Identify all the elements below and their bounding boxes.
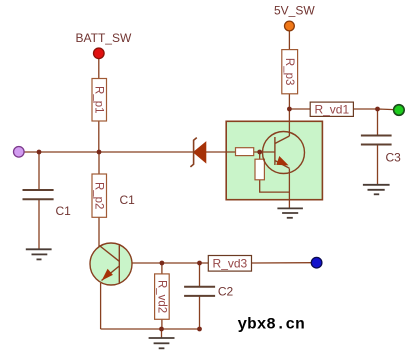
wire 5V_SW terminal to R_p3 — [288, 31, 290, 50]
svg-text:R_vd3: R_vd3 — [213, 257, 248, 271]
wire R_vd1 to C3 node — [353, 108, 377, 110]
wire node to R_p2 — [98, 152, 100, 174]
wire C3 node to output terminal — [378, 108, 395, 111]
wire box resistor to base node — [254, 151, 275, 153]
ground (C3) — [363, 185, 390, 195]
resistor R_vd3 — [208, 256, 251, 272]
Q2 emitter arrow — [102, 269, 113, 281]
junction node (C3 tap) — [375, 107, 380, 112]
Q1 emitter arrow — [276, 156, 288, 165]
wire C3 branch down — [377, 109, 379, 136]
svg-text:C3: C3 — [386, 151, 402, 165]
terminal output R_vd1 (green) — [394, 105, 405, 116]
wire Q2 emitter down — [100, 283, 102, 329]
terminal 5V_SW — [285, 21, 295, 31]
wire C1 to ground — [38, 199, 40, 249]
resistor R_p1 — [92, 79, 107, 122]
svg-text:C1: C1 — [120, 193, 136, 207]
resistor R_p2 — [92, 174, 107, 217]
junction node (5V node) — [287, 107, 292, 112]
ground (bottom rail) — [149, 338, 175, 348]
junction node (C2 tap) — [197, 261, 202, 266]
svg-text:R_p1: R_p1 — [93, 86, 105, 114]
resistor R_vd1 — [310, 102, 353, 116]
svg-text:5V_SW: 5V_SW — [274, 4, 315, 18]
terminal output R_vd3 (blue) — [311, 257, 322, 268]
junction node (Q1 base) — [257, 150, 262, 155]
resistor internal horizontal (base) — [236, 148, 254, 156]
svg-text:R_vd2: R_vd2 — [155, 280, 167, 313]
junction node (left C1 tap) — [37, 150, 42, 155]
wire R_p1 to main node — [98, 121, 100, 152]
svg-text:R_p3: R_p3 — [283, 58, 295, 86]
terminal BATT_SW — [94, 48, 105, 59]
wire R_vd3 to output terminal — [252, 262, 312, 264]
zener diode D1 — [190, 138, 205, 167]
terminal input (violet) — [13, 147, 24, 158]
wire C1 branch down — [38, 152, 40, 190]
junction node (main node) — [97, 150, 102, 155]
wire zener to box resistor — [206, 151, 236, 153]
capacitor C3 — [361, 136, 392, 145]
capacitor C1 — [23, 190, 54, 199]
wire bottom rail — [101, 328, 200, 330]
junction node (rail C2) — [197, 327, 202, 332]
resistor internal vertical (base-emitter) — [255, 159, 264, 180]
wire node to R_vd1 — [289, 108, 310, 110]
wire base node to R internal top — [259, 152, 261, 159]
transistor Q1 (NPN in box) — [263, 132, 305, 174]
wire C2 bottom — [199, 296, 201, 329]
wire rail to ground — [161, 329, 163, 338]
svg-text:C2: C2 — [218, 285, 234, 299]
wire node to Q1 collector — [288, 109, 290, 136]
wire R_p2 to Q2 collector — [98, 217, 100, 246]
wire R_vd2 bottom — [161, 319, 163, 329]
svg-text:BATT_SW: BATT_SW — [76, 31, 132, 45]
wire R_vd2 branch — [161, 263, 163, 274]
junction node (R_vd2 tap) — [160, 261, 165, 266]
wire C3 to ground — [377, 145, 379, 185]
wire BATT_SW terminal to R_p1 — [98, 58, 100, 79]
svg-text:R_vd1: R_vd1 — [314, 102, 349, 116]
resistor R_vd2 — [155, 274, 170, 319]
svg-text:ybx8.cn: ybx8.cn — [238, 316, 305, 334]
resistor R_p3 — [282, 50, 298, 94]
ground (C1) — [26, 249, 52, 259]
wire R_p3 to node — [288, 94, 290, 109]
wire R internal bottom L-bend to emitter — [260, 180, 290, 192]
wire Q1 emitter to ground — [288, 169, 290, 209]
wire main horizontal net (left terminal to zener) — [24, 151, 194, 153]
svg-text:C1: C1 — [56, 204, 72, 218]
junction node (rail ground) — [159, 327, 164, 332]
transistor Q2 (NPN lower) — [90, 243, 132, 285]
capacitor C2 — [184, 287, 215, 296]
wire C2 branch — [199, 263, 201, 287]
ground (Q1 emitter) — [277, 208, 303, 217]
wire Q2 base to R_vd3 — [119, 262, 208, 264]
opto/driver block highlight box — [226, 121, 322, 199]
svg-text:R_p2: R_p2 — [93, 182, 105, 210]
